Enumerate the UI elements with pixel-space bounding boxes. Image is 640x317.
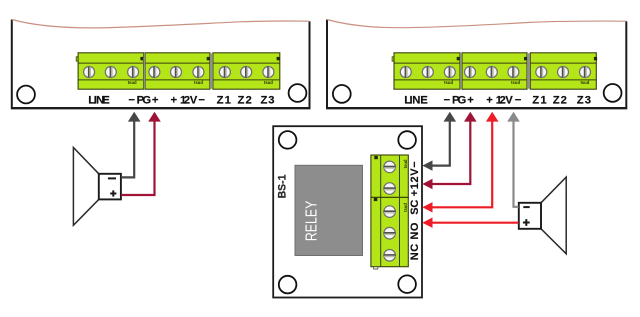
svg-text:tsud: tsud	[444, 80, 453, 85]
svg-text:Z: Z	[237, 95, 244, 107]
svg-text:SC: SC	[409, 200, 421, 215]
svg-text:1: 1	[540, 95, 546, 107]
svg-text:Z: Z	[553, 95, 560, 107]
svg-text:3: 3	[268, 95, 274, 107]
svg-text:tsud: tsud	[403, 159, 408, 168]
svg-text:−: −	[444, 95, 451, 107]
svg-text:G: G	[458, 95, 467, 107]
svg-text:+12V−: +12V−	[409, 161, 421, 196]
svg-text:+: +	[467, 95, 474, 107]
svg-text:−: −	[515, 95, 522, 107]
svg-text:V: V	[190, 95, 198, 107]
svg-text:3: 3	[585, 95, 591, 107]
svg-text:1: 1	[225, 95, 231, 107]
svg-text:NC NO: NC NO	[409, 222, 421, 260]
svg-text:tsud: tsud	[194, 80, 203, 85]
svg-text:tsud: tsud	[403, 203, 408, 212]
svg-text:Z: Z	[260, 95, 267, 107]
svg-text:E: E	[420, 95, 428, 107]
svg-text:+: +	[171, 95, 178, 107]
svg-text:G: G	[142, 95, 151, 107]
svg-text:tsud: tsud	[511, 80, 520, 85]
svg-text:tsud: tsud	[264, 80, 273, 85]
svg-text:2: 2	[561, 95, 567, 107]
svg-text:tsud: tsud	[580, 80, 589, 85]
svg-text:Z: Z	[217, 95, 224, 107]
svg-text:+: +	[486, 95, 493, 107]
svg-text:E: E	[102, 95, 110, 107]
svg-text:Z: Z	[532, 95, 539, 107]
svg-text:Z: Z	[577, 95, 584, 107]
svg-text:−: −	[128, 95, 135, 107]
svg-text:+: +	[152, 95, 159, 107]
svg-text:2: 2	[246, 95, 252, 107]
svg-text:RELEY: RELEY	[303, 201, 320, 241]
svg-text:V: V	[505, 95, 513, 107]
svg-text:−: −	[198, 95, 205, 107]
svg-text:tsud: tsud	[128, 80, 137, 85]
svg-text:BS-1: BS-1	[277, 175, 289, 199]
